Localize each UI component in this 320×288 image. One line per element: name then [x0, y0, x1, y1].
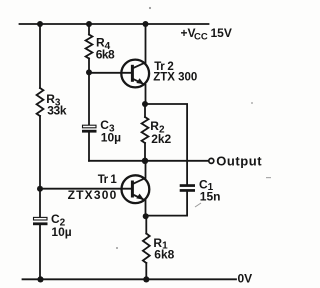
- svg-text:2k2: 2k2: [151, 132, 171, 146]
- svg-text:15n: 15n: [200, 190, 221, 204]
- svg-text:10µ: 10µ: [101, 131, 121, 145]
- svg-text:0V: 0V: [238, 272, 253, 286]
- svg-text:6k8: 6k8: [154, 247, 174, 261]
- svg-text:15V: 15V: [211, 26, 232, 40]
- svg-text:Tr 1: Tr 1: [98, 174, 118, 186]
- svg-text:ZTX300: ZTX300: [68, 188, 118, 202]
- svg-text:6k8: 6k8: [96, 48, 115, 62]
- svg-text:CC: CC: [194, 32, 208, 43]
- svg-text:10µ: 10µ: [51, 225, 71, 239]
- svg-text:33k: 33k: [47, 104, 67, 118]
- svg-text:Output: Output: [216, 154, 262, 169]
- svg-text:ZTX 300: ZTX 300: [153, 72, 197, 84]
